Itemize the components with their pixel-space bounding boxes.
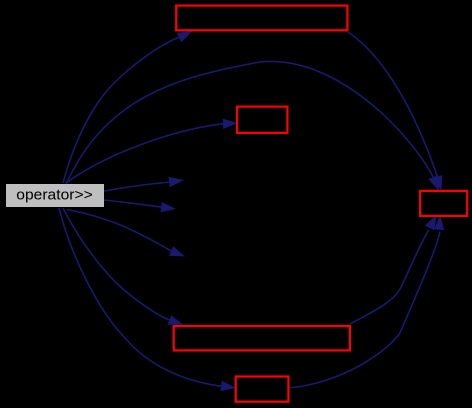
svg-text:operator>>: operator>> — [16, 188, 93, 204]
